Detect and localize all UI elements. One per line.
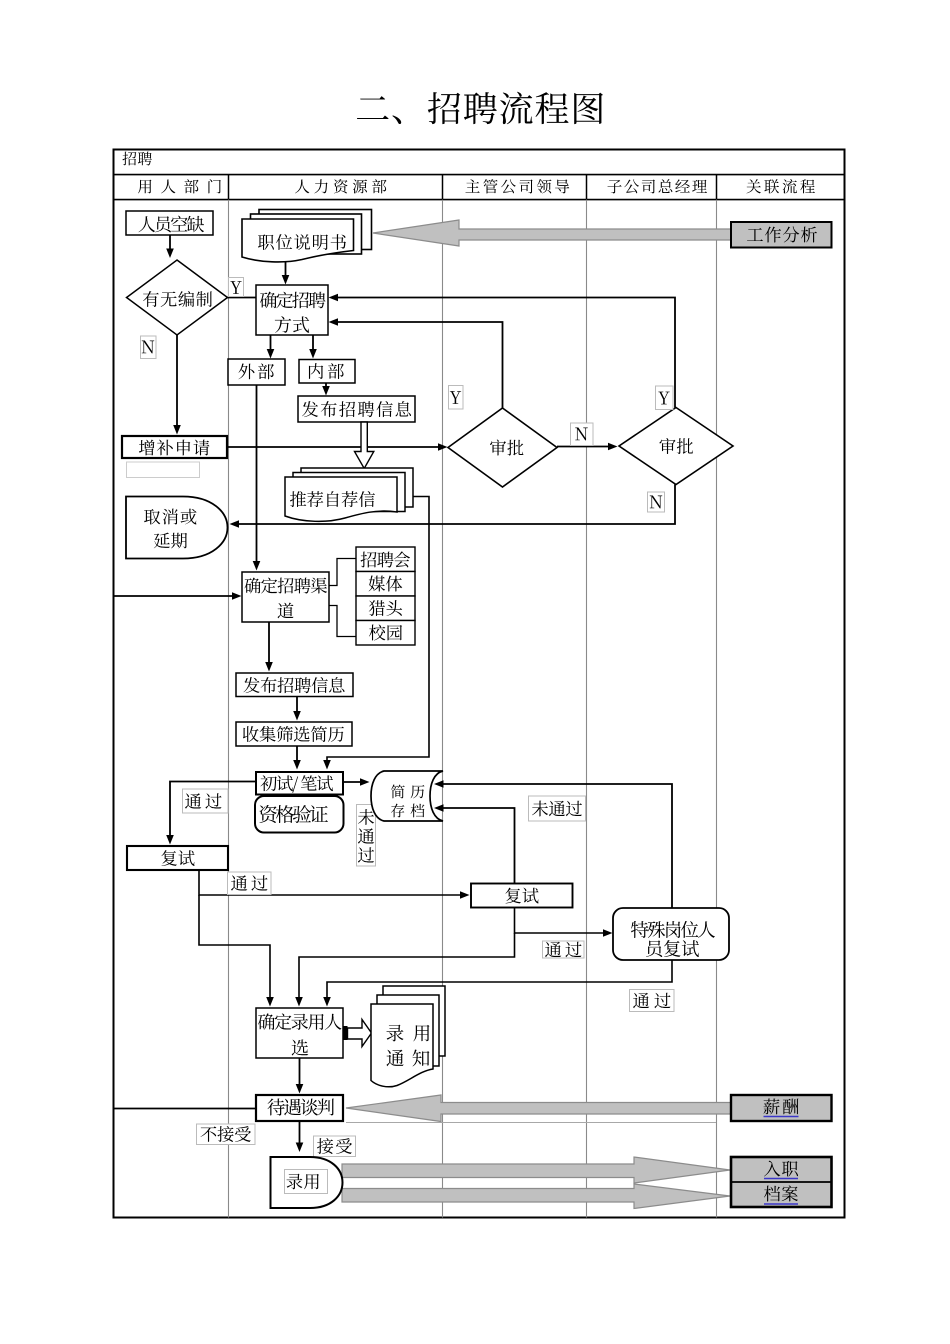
faint empty box under 增补申请 [127,462,200,478]
document 录用通知 (stack) [371,986,445,1087]
wire 特殊岗位复试未通过 -> 简历存档 [434,780,672,908]
label N (有无编制) [141,336,157,359]
cell text 招聘 [122,152,152,166]
decision 审批1 [448,408,557,487]
box 入职 [731,1161,832,1182]
gray arrow 薪酬 -> 待遇谈判 [346,1095,731,1122]
stored-data 简历存档 [371,771,443,821]
header 主管公司领导 [465,179,569,193]
decision 审批2 [619,408,733,485]
gray arrow 录用 -> 入职 [342,1157,730,1183]
label 未通过 (复试2) [529,796,586,821]
box 确定招聘渠道 [242,572,329,622]
table outer frame [114,150,845,1218]
column divider 人力资源部|主管公司领导 [442,200,444,1218]
wire 职位说明书 -> 确定招聘方式 [282,262,290,285]
column divider 主管公司领导|子公司总经理 [586,200,588,1218]
gray arrow 录用 -> 档案 [342,1184,730,1209]
box 待遇谈判 [256,1095,343,1121]
wire 确定录用人选 -> 待遇谈判 [296,1058,304,1094]
wire 发布招聘信息2 -> 收集筛选简历 [293,697,301,721]
header divider x442 [442,175,444,200]
header 人力资源部 [295,179,386,193]
title 二、招聘流程图 [357,92,603,125]
block arrow 确定录用人选 -> 录用通知 [343,1020,372,1047]
row divider under headers [114,199,845,201]
wire 确定招聘方式 -> 内部 [309,335,317,359]
wire 复试1 -> 确定录用人选 [199,895,274,1007]
wire 复试2未通过 -> 简历存档 [434,804,515,883]
box 媒体 [356,572,415,597]
wire 增补申请 -> 审批1 [227,443,448,451]
label 接受 [314,1136,356,1157]
wire 审批1 Y loop -> 确定招聘方式 [329,318,503,408]
wire 人员空缺 -> 有无编制 [166,235,174,258]
header divider x586 [586,175,588,200]
wire 特殊岗位复试 通过 -> 确定录用人选 [323,960,672,1007]
box 档案 [764,1185,798,1204]
box 薪酬 [731,1095,832,1121]
label 录用 [285,1170,328,1194]
box 校园 [356,621,415,646]
header divider x228 [228,175,230,200]
wire 推荐自荐信 -> 初试笔试 [323,497,429,770]
label Y (审批2) [656,386,674,410]
rounded box 特殊岗位人员复试 [613,908,729,960]
header 关联流程 [746,179,814,193]
wire 待遇谈判 接受 -> 录用 [296,1121,304,1152]
label Y (审批1) [449,386,464,410]
label 通过 (复试1) [228,872,272,895]
wire 初试笔试 -> 简历存档 [343,778,370,786]
document 职位说明书 (stack) [242,210,372,262]
row divider under 招聘 [114,174,845,176]
label 通过 (初试->复试) [183,789,229,813]
wire 外部 -> 确定招聘渠道 [253,385,261,571]
wire 有无编制 Y -> 确定招聘方式 [228,297,257,299]
wire 复试2 -> 确定录用人选 [295,933,514,1007]
header divider x716 [716,175,718,200]
header 用人部门 [138,179,221,193]
box 招聘会 [356,547,415,572]
box 发布招聘信息1 [298,396,415,422]
label N (审批1) [571,423,594,446]
vertical label 未通过 (初试) [357,805,376,867]
box 人员空缺 [126,211,213,235]
hollow double arrow 发布->推荐自荐信 [355,422,374,469]
wire 待遇谈判 不接受 -> left border [114,1108,257,1110]
decision 有无编制 [127,260,228,335]
document 推荐自荐信 (stack) [285,468,413,521]
box 猎头 [356,596,415,621]
delay 取消或延期 [126,497,228,559]
box 确定录用人选 [256,1008,343,1058]
wire 复试1 通过 -> 复试2 [199,871,470,899]
box 复试1 [127,846,228,870]
box 内部 [299,360,355,384]
label N (审批2) [648,492,665,512]
faint shadow line right of 薪酬 arrow [346,1122,716,1124]
box 工作分析 [731,222,832,248]
label Y (有无编制) [229,278,244,297]
box 入职/档案 outer [731,1157,832,1207]
box 发布招聘信息2 [236,673,353,697]
wire 审批2 N -> 取消或延期 [230,485,676,528]
wire 收集筛选简历 -> 初试笔试 [293,746,301,770]
header 子公司总经理 [607,179,706,193]
wire 有无编制 N -> 增补申请 [173,335,181,435]
box 确定招聘方式 [256,285,328,335]
wire left border -> 确定招聘渠道 [114,592,242,600]
column divider 子公司总经理|关联流程 [716,200,718,1218]
wire bracket 确定招聘渠道 -> 校园 [329,606,356,637]
label 通过 (复试2->特殊) [543,941,585,958]
wire 确定招聘方式 -> 外部 [267,335,275,359]
label 不接受 [197,1124,256,1145]
wire 内部 -> 发布招聘信息 [322,384,330,396]
box 外部 [228,359,285,385]
label 通过 (特殊->录用人选) [630,990,675,1012]
wire 审批2 Y loop -> 确定招聘方式 [329,294,676,408]
gray arrow 工作分析 -> 职位说明书 [373,220,731,246]
box 复试2 [471,884,573,908]
wire 复试2 通过 -> 特殊岗位复试 [515,908,613,937]
box 增补申请 [122,436,227,458]
wire bracket 确定招聘渠道 -> 招聘会 [329,559,356,586]
box 收集筛选简历 [236,722,352,746]
wire 确定招聘渠道 -> 发布招聘信息2 [265,622,273,672]
column divider 用人部门|人力资源部 [228,200,230,1218]
wire 审批1 N -> 审批2 [557,443,618,451]
delay 录用 [271,1157,343,1208]
rounded box 资格验证 [255,796,344,833]
box 初试/笔试 [256,772,343,795]
wire 初试笔试 通过 -> 复试1 [166,782,256,845]
